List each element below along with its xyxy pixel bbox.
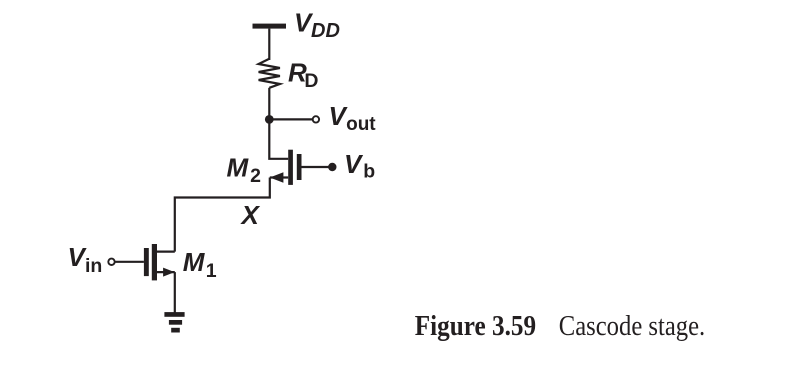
M2 source line <box>270 176 288 178</box>
transistor M1 channel bar <box>152 244 157 280</box>
label RD <box>288 58 318 92</box>
M1 drain line <box>157 251 175 253</box>
node junction dot <box>265 115 274 124</box>
svg-text:Cascode stage.: Cascode stage. <box>559 310 705 342</box>
transistor M2 channel bar <box>288 150 293 185</box>
label VDD <box>294 8 340 43</box>
Vin terminal (open circle) <box>108 259 114 265</box>
svg-text:2: 2 <box>250 165 261 187</box>
svg-text:D: D <box>304 70 318 92</box>
wire node to Vout terminal <box>269 118 312 120</box>
svg-text:in: in <box>85 255 102 277</box>
wire VDD to resistor <box>268 29 270 60</box>
figure caption <box>415 310 705 342</box>
wire Vin to M1 gate <box>115 261 144 263</box>
label M1 <box>183 247 217 282</box>
svg-text:1: 1 <box>206 260 217 282</box>
transistor M1 gate bar <box>144 248 149 276</box>
transistor M2 gate bar <box>297 154 302 180</box>
Vout terminal (open circle) <box>313 116 319 122</box>
svg-text:M: M <box>227 153 250 183</box>
svg-text:M: M <box>183 247 206 277</box>
svg-text:X: X <box>240 200 261 230</box>
svg-text:Figure 3.59: Figure 3.59 <box>415 310 536 342</box>
label M2 <box>227 153 262 188</box>
ground symbol <box>164 312 184 332</box>
resistor RD <box>259 59 280 88</box>
wire resistor to output node <box>268 88 270 120</box>
svg-text:out: out <box>346 114 376 135</box>
wire M2 gate to Vb <box>302 166 333 168</box>
svg-text:DD: DD <box>311 20 340 42</box>
Vb terminal (filled dot) <box>328 163 336 171</box>
wire M2 source to node X to M1 drain <box>175 178 270 252</box>
VDD supply bar <box>253 24 287 29</box>
M1 source arrow <box>163 268 175 277</box>
wire M1 source to ground <box>174 272 176 313</box>
wire node to M2 drain <box>269 119 288 158</box>
label Vout <box>329 101 377 135</box>
label Vin <box>68 242 103 277</box>
svg-text:V: V <box>344 149 364 179</box>
M1 source line <box>157 271 175 273</box>
svg-text:b: b <box>363 160 375 182</box>
label Vb <box>344 149 375 182</box>
M2 source arrow <box>270 172 284 183</box>
